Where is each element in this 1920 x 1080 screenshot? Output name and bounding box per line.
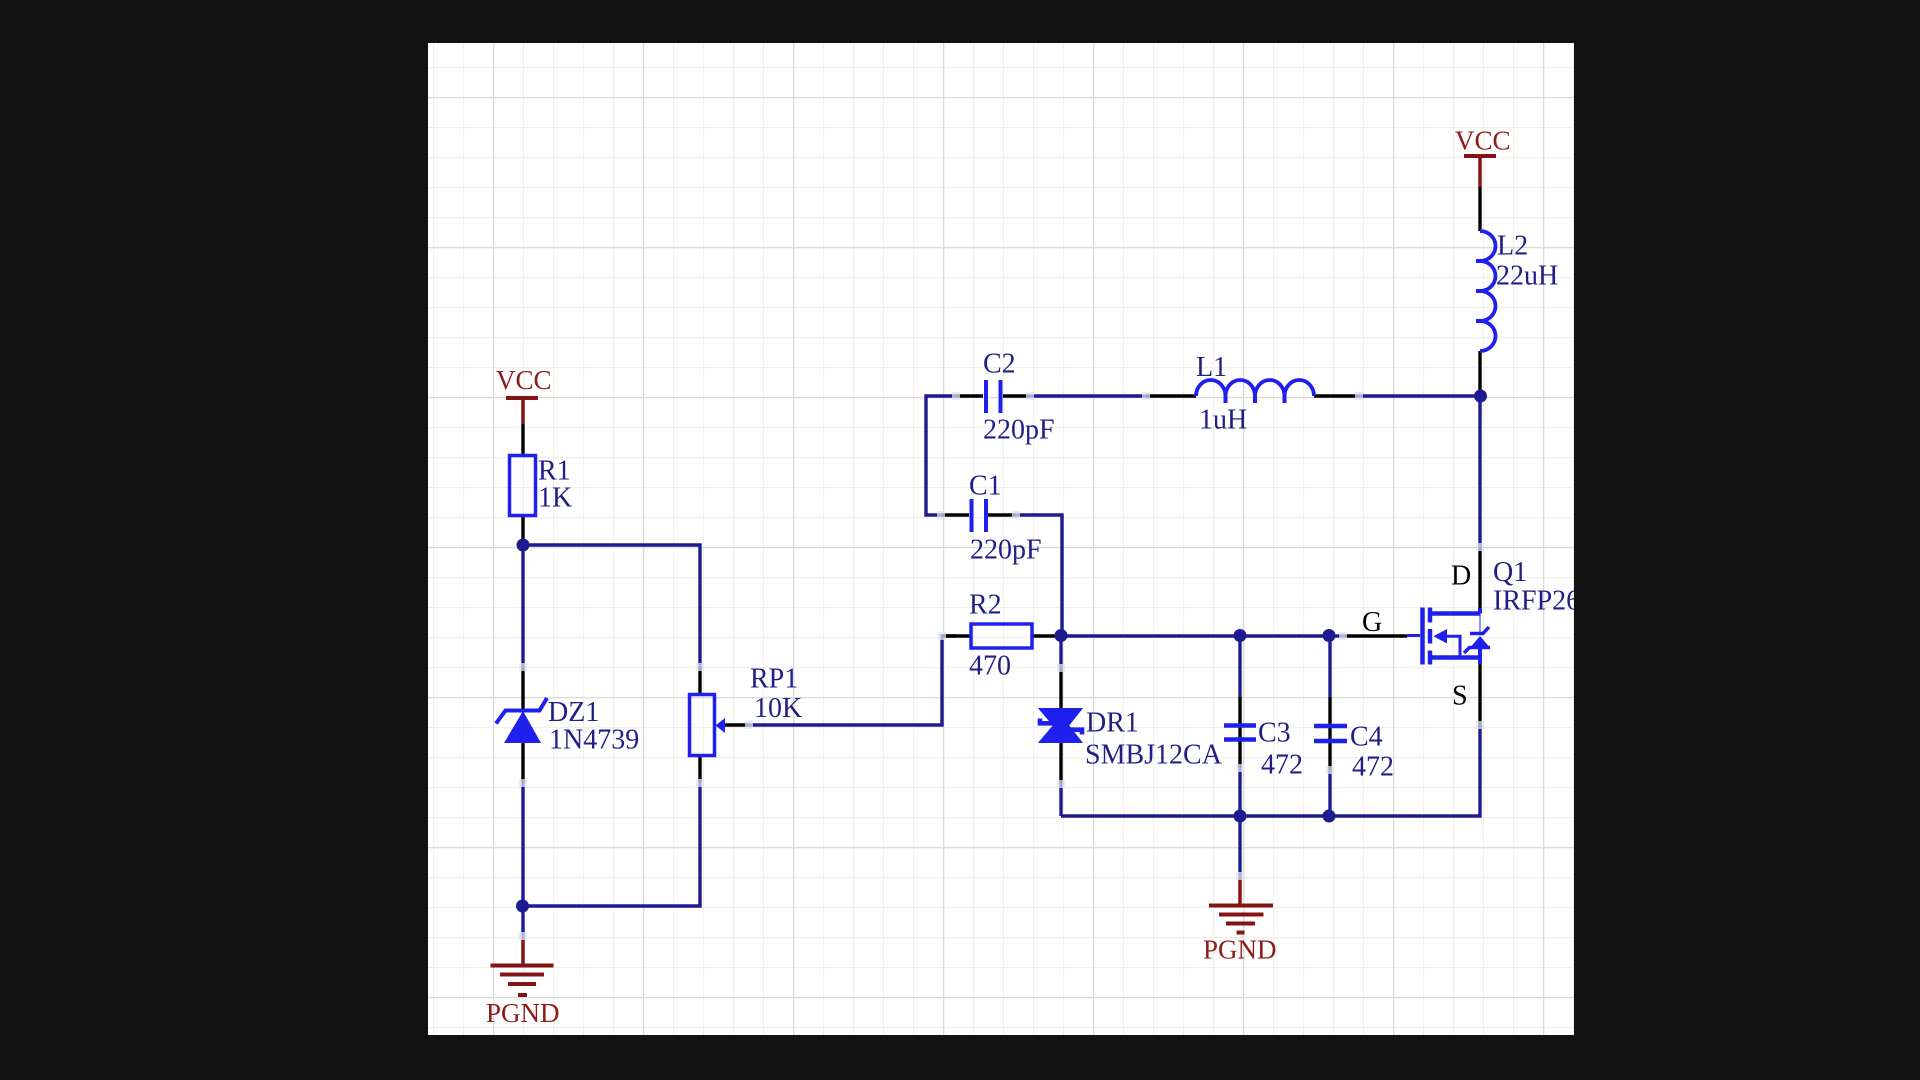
svg-text:RP1: RP1 [750, 664, 798, 695]
svg-text:DR1: DR1 [1086, 708, 1139, 739]
svg-text:C3: C3 [1258, 718, 1291, 749]
svg-text:1uH: 1uH [1199, 405, 1247, 436]
svg-text:472: 472 [1261, 750, 1303, 781]
svg-text:1K: 1K [538, 483, 572, 514]
svg-text:DZ1: DZ1 [548, 697, 599, 728]
svg-text:Q1: Q1 [1493, 557, 1527, 588]
svg-text:C4: C4 [1350, 722, 1383, 753]
svg-text:220pF: 220pF [983, 415, 1055, 446]
svg-text:470: 470 [969, 651, 1011, 682]
svg-text:10K: 10K [754, 693, 802, 724]
svg-text:PGND: PGND [1203, 935, 1277, 965]
svg-text:G: G [1362, 607, 1382, 638]
svg-text:C2: C2 [983, 349, 1016, 380]
svg-text:PGND: PGND [486, 998, 560, 1028]
svg-text:220pF: 220pF [970, 535, 1042, 566]
svg-text:SMBJ12CA: SMBJ12CA [1085, 740, 1223, 771]
svg-text:472: 472 [1352, 752, 1394, 783]
svg-text:VCC: VCC [496, 365, 552, 395]
svg-text:22uH: 22uH [1496, 261, 1558, 292]
svg-text:C1: C1 [969, 471, 1002, 502]
svg-text:D: D [1451, 561, 1471, 592]
svg-text:L2: L2 [1497, 231, 1528, 262]
svg-text:1N4739: 1N4739 [549, 725, 639, 756]
svg-text:S: S [1452, 681, 1468, 712]
svg-text:L1: L1 [1196, 352, 1227, 383]
svg-text:VCC: VCC [1455, 126, 1511, 156]
svg-text:R2: R2 [969, 590, 1002, 621]
